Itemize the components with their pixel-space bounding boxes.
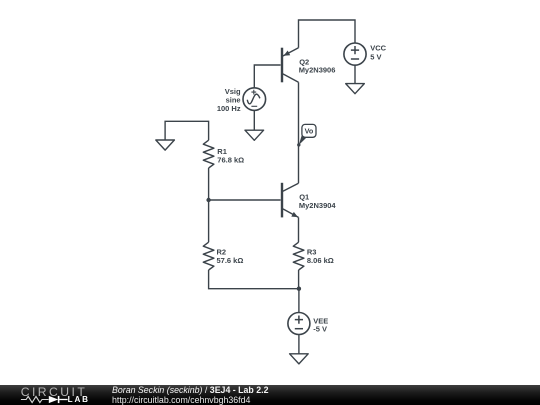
wire: left ground to R1 top: [165, 121, 209, 140]
voltage source VEE: [288, 313, 310, 335]
svg-text:VCC: VCC: [370, 43, 386, 52]
Vsig value label: [217, 87, 241, 113]
wire: Vsig top to Q2 base: [254, 65, 280, 88]
resistor R1: [203, 140, 214, 168]
wire: R3 bottom to bottom node: [298, 270, 300, 289]
node flag Vo: [297, 124, 316, 146]
resistor R2: [203, 242, 214, 270]
wire: Q1 emitter to R3 top: [298, 217, 300, 242]
svg-text:5 V: 5 V: [370, 52, 381, 61]
CircuitLab logo: LAB: [68, 396, 90, 404]
svg-text:100 Hz: 100 Hz: [217, 104, 241, 113]
wire: bottom node to VEE top: [298, 289, 300, 313]
VCC value label: [370, 43, 386, 61]
ground (under Vsig): [245, 130, 264, 140]
voltage source VCC: [344, 43, 366, 65]
CircuitLab logo: CIRCUIT: [21, 386, 88, 398]
wire: R1 bottom to base node: [208, 168, 210, 200]
resistor R3: [293, 242, 304, 270]
wire: R2 bottom to bottom rail: [209, 270, 299, 289]
svg-text:My2N3906: My2N3906: [299, 66, 336, 75]
ground (under VEE): [290, 354, 309, 364]
ground (under VCC): [346, 84, 365, 94]
footer bar: [0, 385, 540, 405]
transistor Q2 (PNP My2N3906): [282, 48, 299, 83]
R3 value label: [307, 248, 334, 265]
node junction (R1/R2/Q1 base): [206, 198, 210, 202]
svg-text:-5 V: -5 V: [313, 324, 327, 333]
footer text line 1: [112, 385, 268, 395]
R2 value label: [217, 248, 244, 265]
wire: Vsig bottom to ground: [253, 110, 255, 130]
Q1 name label: [299, 193, 337, 210]
svg-text:8.06 kΩ: 8.06 kΩ: [307, 256, 334, 265]
svg-text:76.8 kΩ: 76.8 kΩ: [217, 155, 244, 164]
transistor Q1 (NPN My2N3904): [282, 183, 299, 218]
wire: base node to R2 top: [208, 200, 210, 242]
svg-text:Vo: Vo: [305, 127, 314, 136]
wire: base node to Q1 base: [209, 199, 281, 201]
Q2 name label: [299, 57, 336, 74]
footer text line 2: [112, 395, 250, 405]
svg-text:My2N3904: My2N3904: [299, 201, 337, 210]
voltage source Vsig (sine 100 Hz): [243, 88, 266, 111]
svg-text:57.6 kΩ: 57.6 kΩ: [217, 256, 244, 265]
VEE value label: [313, 316, 328, 333]
node junction (bottom rail / VEE): [297, 287, 301, 291]
ground (left, near R1): [156, 140, 175, 150]
wire: Q2 emitter up and over to VCC: [299, 20, 356, 48]
CircuitLab logo: resistor + diode squiggle: [20, 395, 70, 405]
wire: VEE bottom to ground: [298, 334, 300, 353]
wire: VCC bottom to ground: [354, 65, 356, 83]
wire: Q2 collector down to Q1 collector: [298, 82, 300, 183]
R1 value label: [217, 147, 244, 164]
